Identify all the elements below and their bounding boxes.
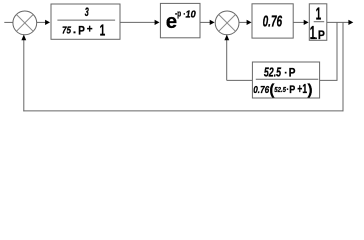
svg-text:P: P bbox=[78, 26, 85, 38]
wire: inner feedback tap down from output line into block H1 bbox=[320, 22, 338, 80]
block G4: integrator 1/(1·P) bbox=[309, 4, 327, 43]
svg-text:+: + bbox=[87, 24, 93, 36]
svg-text:1: 1 bbox=[316, 4, 322, 24]
svg-text:10: 10 bbox=[186, 10, 197, 21]
wire: S2 to block G3 bbox=[239, 20, 252, 25]
wire: H1 output left and up into S2 bbox=[224, 35, 252, 81]
block G1: 3/(75·P+1) bbox=[51, 4, 120, 39]
wire: G3 to block G4 bbox=[293, 20, 308, 25]
svg-text:P: P bbox=[289, 65, 296, 79]
block H1: 52.5·P / 0.76(52.5·P+1) bbox=[252, 62, 319, 98]
summing junction S1 bbox=[13, 11, 37, 35]
svg-text:P: P bbox=[289, 84, 295, 96]
block G2: transport delay e^(-p·10) bbox=[160, 3, 200, 37]
block G3: gain 0.76 bbox=[252, 4, 293, 38]
svg-text:1: 1 bbox=[100, 22, 106, 39]
svg-text:75: 75 bbox=[62, 26, 71, 37]
svg-text:0.76: 0.76 bbox=[263, 14, 283, 31]
wire: S1 output to block G1 bbox=[37, 20, 50, 25]
svg-text:): ) bbox=[308, 81, 313, 98]
svg-text:0.76: 0.76 bbox=[253, 85, 269, 96]
svg-text:52.5: 52.5 bbox=[274, 85, 286, 94]
wire: G4 output to system output arrow bbox=[327, 20, 353, 25]
wire: outer feedback loop from output line down and back to S1 bbox=[21, 22, 343, 111]
summing junction S2 bbox=[215, 11, 239, 35]
svg-text:-p: -p bbox=[175, 9, 181, 20]
svg-text:+1: +1 bbox=[297, 81, 307, 96]
svg-text:1: 1 bbox=[310, 22, 316, 43]
wire: G1 to block G2 bbox=[120, 20, 160, 25]
wire: system input into summing junction S1 bbox=[4, 21, 13, 23]
svg-text:3: 3 bbox=[85, 5, 89, 19]
svg-text:52.5: 52.5 bbox=[264, 65, 282, 80]
wire: G2 to summing junction S2 bbox=[200, 20, 215, 25]
svg-text:P: P bbox=[318, 28, 325, 42]
